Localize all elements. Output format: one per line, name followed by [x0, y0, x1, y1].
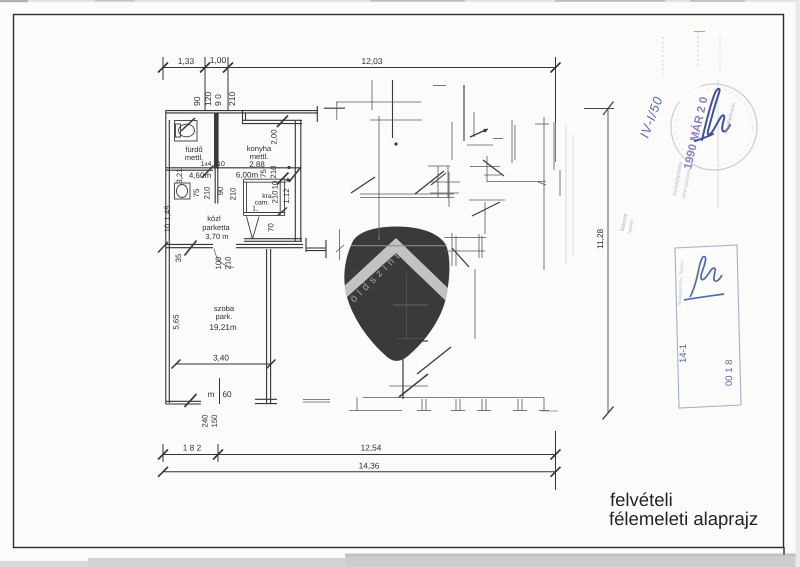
stub right of konyha [305, 238, 307, 252]
svg-text:1,00: 1,00 [210, 55, 227, 65]
svg-text:park.: park. [216, 312, 233, 321]
rect stamp signature [690, 256, 722, 297]
title text [609, 489, 758, 529]
wall slashes [202, 166, 214, 178]
svg-text:4,60m: 4,60m [189, 171, 212, 180]
svg-text:210: 210 [227, 92, 237, 106]
svg-text:14-1: 14-1 [678, 344, 689, 363]
svg-text:12,54: 12,54 [361, 443, 382, 453]
watermark shield [342, 227, 452, 361]
windows row bottom [363, 397, 544, 399]
right dim line 11,28 [584, 102, 614, 420]
svg-text:11,28: 11,28 [595, 228, 605, 249]
watermark chevron [342, 238, 452, 302]
center-bottom structure [402, 271, 404, 399]
svg-text:75: 75 [259, 169, 268, 178]
svg-text:150: 150 [210, 414, 219, 428]
svg-text:70: 70 [267, 223, 276, 232]
top wall [166, 110, 319, 112]
blue creases [662, 37, 664, 74]
svg-text:parketta: parketta [202, 223, 230, 232]
bottom dim chains [158, 431, 561, 490]
rect stamp [675, 245, 741, 408]
sink [175, 183, 191, 199]
svg-text:00 1 8: 00 1 8 [724, 360, 735, 386]
kitchen recess wall [242, 119, 302, 121]
közl bottom wall [166, 243, 213, 245]
svg-text:120: 120 [203, 92, 213, 106]
round stamp [671, 84, 757, 170]
svg-text:240: 240 [201, 414, 210, 428]
window slashes [277, 116, 288, 128]
kamra door [247, 217, 253, 240]
svg-text:1,33: 1,33 [178, 56, 195, 66]
svg-text:12,03: 12,03 [361, 56, 383, 66]
top scan streak [0, 0, 800, 2]
svg-text:144: 144 [201, 161, 212, 168]
szoba bottom wall [166, 400, 201, 402]
svg-text:1,12: 1,12 [282, 188, 291, 203]
frame right tail [783, 547, 785, 555]
svg-text:m: m [208, 390, 215, 399]
top dimension line [163, 67, 556, 69]
toilet [179, 124, 195, 137]
svg-text:9 0: 9 0 [213, 94, 223, 106]
WC room [175, 121, 198, 142]
svg-text:1,: 1, [252, 206, 258, 213]
door arc közl [214, 249, 234, 268]
svg-text:100: 100 [214, 256, 223, 270]
svg-text:1 8 2: 1 8 2 [183, 443, 202, 453]
stamps [620, 32, 757, 409]
bottom scan bar [0, 561, 800, 567]
svg-text:közl: közl [207, 214, 221, 223]
right mid cluster [431, 173, 446, 185]
svg-text:felvételi: felvételi [610, 489, 673, 510]
konyha bottom wall [244, 238, 302, 240]
center cluster [467, 144, 493, 146]
svg-text:19,21m: 19,21m [209, 323, 236, 332]
svg-text:1,45: 1,45 [163, 205, 172, 221]
interior divider bar [214, 113, 219, 169]
svg-text:60: 60 [222, 390, 232, 399]
szoba dim line 3,40 [172, 360, 276, 405]
right open area sketch [303, 80, 573, 411]
fürdő bottom wall [166, 167, 301, 169]
svg-text:5,65: 5,65 [172, 314, 181, 330]
svg-text:10: 10 [217, 161, 225, 168]
svg-text:210: 210 [203, 186, 212, 200]
svg-text:35: 35 [174, 253, 183, 262]
svg-text:210: 210 [271, 190, 280, 204]
svg-text:14,36: 14,36 [359, 461, 380, 471]
watermark ghost lines [344, 227, 450, 360]
svg-text:2,88: 2,88 [249, 160, 265, 169]
svg-text:210: 210 [229, 187, 238, 201]
svg-text:félemeleti alaprajz: félemeleti alaprajz [609, 508, 758, 529]
svg-text:3,40: 3,40 [213, 354, 229, 363]
svg-text:6,00m: 6,00m [236, 171, 259, 180]
left wall [165, 111, 167, 404]
svg-text:3,70 m: 3,70 m [205, 232, 228, 241]
svg-text:210: 210 [269, 165, 278, 179]
svg-text:210: 210 [224, 256, 233, 270]
szoba inner right wall [266, 249, 268, 403]
window bay left [360, 193, 454, 195]
svg-text:10: 10 [271, 180, 280, 189]
right scan edge [796, 0, 800, 567]
svg-text:2,00: 2,00 [270, 129, 279, 145]
svg-text:90: 90 [192, 96, 202, 106]
konyha right wall [294, 120, 296, 241]
signature [702, 89, 730, 140]
svg-text:75: 75 [192, 188, 201, 197]
svg-text:10: 10 [163, 223, 172, 232]
svg-text:90: 90 [216, 186, 225, 195]
svg-text:3,21: 3,21 [175, 168, 184, 183]
bottom-right ledge [303, 399, 330, 401]
kamra box [244, 178, 287, 180]
